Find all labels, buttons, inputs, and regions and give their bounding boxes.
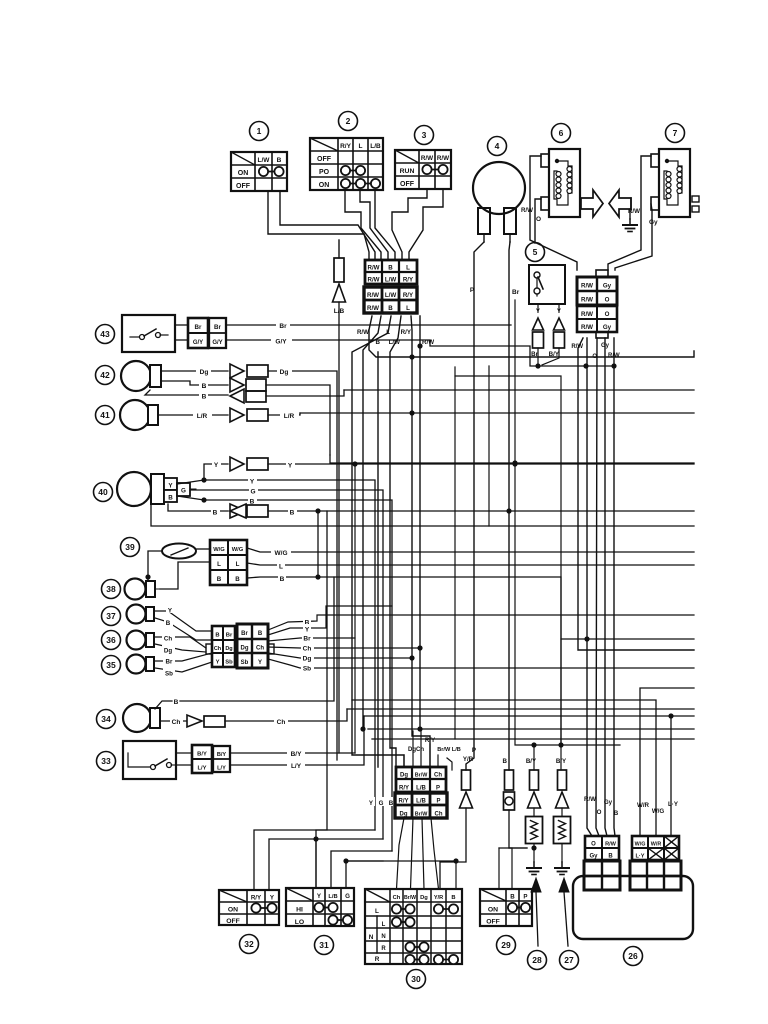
- svg-text:Dg: Dg: [400, 773, 408, 779]
- svg-text:W/G: W/G: [275, 550, 288, 557]
- svg-text:B: B: [510, 894, 515, 901]
- svg-text:L: L: [279, 564, 283, 571]
- svg-text:B: B: [389, 800, 394, 807]
- svg-text:Br: Br: [279, 323, 287, 330]
- svg-text:B: B: [258, 631, 263, 637]
- svg-text:L: L: [217, 561, 221, 568]
- svg-text:37: 37: [106, 611, 116, 621]
- svg-text:P: P: [523, 894, 527, 901]
- svg-text:B: B: [166, 620, 171, 627]
- svg-text:B: B: [388, 305, 393, 312]
- svg-text:B: B: [202, 383, 207, 390]
- svg-text:L/R: L/R: [197, 413, 208, 420]
- svg-text:O: O: [605, 297, 610, 304]
- svg-text:R/Y: R/Y: [401, 329, 412, 336]
- svg-text:R/Y: R/Y: [399, 786, 409, 792]
- svg-text:W/G: W/G: [232, 547, 244, 553]
- svg-text:L/Y: L/Y: [217, 766, 226, 772]
- svg-text:Y/R: Y/R: [434, 895, 443, 901]
- svg-text:L·Y: L·Y: [635, 854, 644, 860]
- svg-text:OFF: OFF: [236, 183, 251, 190]
- svg-text:HI: HI: [296, 907, 303, 914]
- svg-text:7: 7: [673, 128, 678, 138]
- svg-text:L/B: L/B: [416, 799, 426, 805]
- svg-text:O: O: [597, 809, 602, 816]
- svg-text:G/Y: G/Y: [212, 340, 222, 346]
- svg-text:Y: Y: [214, 462, 219, 469]
- svg-text:R/Y: R/Y: [398, 799, 408, 805]
- svg-text:Ch: Ch: [393, 895, 401, 901]
- svg-text:36: 36: [106, 635, 116, 645]
- svg-text:L: L: [406, 305, 410, 312]
- svg-text:L/B: L/B: [370, 143, 381, 150]
- svg-text:Dg: Dg: [225, 646, 232, 652]
- svg-text:L: L: [406, 265, 410, 272]
- svg-text:B: B: [213, 510, 218, 517]
- svg-text:Gy: Gy: [604, 799, 613, 806]
- svg-text:L/B: L/B: [416, 786, 426, 792]
- svg-text:B: B: [202, 394, 207, 401]
- svg-text:R: R: [381, 946, 386, 952]
- svg-text:R/Y: R/Y: [425, 737, 436, 744]
- svg-text:L: L: [236, 561, 240, 568]
- svg-text:PO: PO: [319, 169, 330, 176]
- svg-text:B: B: [174, 699, 179, 706]
- svg-text:Br: Br: [531, 351, 538, 358]
- svg-text:OFF: OFF: [400, 181, 415, 188]
- svg-text:B: B: [614, 810, 619, 817]
- svg-text:R/Y: R/Y: [251, 895, 262, 902]
- svg-text:R/W: R/W: [367, 305, 379, 312]
- svg-text:27: 27: [564, 955, 574, 965]
- svg-text:R/W: R/W: [581, 324, 593, 331]
- svg-text:Ch: Ch: [256, 646, 264, 652]
- svg-text:B: B: [215, 633, 219, 639]
- svg-text:39: 39: [125, 542, 135, 552]
- svg-text:43: 43: [100, 329, 110, 339]
- svg-text:R/W: R/W: [367, 265, 379, 272]
- svg-text:Sb: Sb: [241, 660, 249, 666]
- svg-text:2: 2: [346, 116, 351, 126]
- svg-text:Dg: Dg: [280, 369, 289, 376]
- svg-text:G/Y: G/Y: [193, 340, 203, 346]
- svg-text:L/W: L/W: [258, 157, 271, 164]
- svg-text:Ch: Ch: [214, 646, 222, 652]
- svg-text:Ch: Ch: [303, 646, 312, 653]
- svg-text:Y: Y: [258, 660, 262, 666]
- svg-text:Br: Br: [303, 636, 311, 643]
- svg-text:B: B: [608, 854, 613, 860]
- svg-text:B: B: [388, 265, 393, 272]
- svg-text:L/R: L/R: [284, 413, 295, 420]
- svg-text:Gy: Gy: [589, 854, 598, 860]
- svg-text:Ch: Ch: [172, 719, 181, 726]
- svg-text:B: B: [451, 895, 455, 901]
- svg-text:Ch: Ch: [164, 636, 172, 643]
- svg-text:L: L: [375, 908, 379, 915]
- svg-text:R/Y: R/Y: [403, 292, 414, 299]
- svg-text:Dg: Dg: [241, 646, 249, 652]
- svg-text:O: O: [591, 842, 596, 848]
- svg-text:P: P: [472, 747, 476, 754]
- svg-text:OFF: OFF: [317, 156, 332, 163]
- svg-text:R/W: R/W: [367, 292, 379, 299]
- svg-text:B: B: [503, 758, 508, 765]
- svg-text:W/G: W/G: [652, 808, 665, 815]
- svg-text:G: G: [250, 489, 255, 496]
- svg-text:O: O: [592, 354, 597, 360]
- svg-text:ON: ON: [488, 907, 498, 914]
- svg-text:Br: Br: [195, 324, 202, 331]
- svg-text:R/W: R/W: [521, 207, 533, 214]
- svg-text:29: 29: [501, 940, 511, 950]
- svg-text:4: 4: [495, 141, 500, 151]
- svg-text:W/R: W/R: [637, 802, 650, 809]
- svg-text:G: G: [181, 488, 186, 495]
- svg-text:L: L: [359, 143, 363, 150]
- svg-text:Gy: Gy: [603, 283, 612, 290]
- svg-text:LO: LO: [295, 919, 304, 926]
- svg-text:L/Y: L/Y: [197, 766, 206, 772]
- svg-text:W/G: W/G: [213, 547, 225, 553]
- svg-text:R/W: R/W: [584, 796, 596, 803]
- svg-text:Dg: Dg: [164, 648, 172, 655]
- svg-text:Dg: Dg: [303, 656, 312, 663]
- svg-text:G: G: [379, 800, 384, 807]
- svg-text:R/W: R/W: [608, 353, 620, 359]
- svg-text:34: 34: [101, 714, 111, 724]
- svg-text:R/W: R/W: [605, 842, 617, 848]
- svg-text:N: N: [381, 934, 385, 940]
- svg-text:R/W: R/W: [581, 311, 593, 318]
- svg-text:W/R: W/R: [651, 842, 662, 848]
- svg-text:B: B: [168, 495, 173, 502]
- svg-text:N: N: [369, 934, 374, 941]
- svg-text:B: B: [217, 576, 222, 583]
- svg-text:B/Y: B/Y: [291, 751, 303, 758]
- svg-text:Y/R: Y/R: [463, 756, 474, 763]
- svg-text:33: 33: [101, 756, 111, 766]
- svg-text:L: L: [386, 329, 390, 336]
- svg-text:B/Y: B/Y: [197, 752, 207, 758]
- svg-text:L/W: L/W: [385, 292, 396, 299]
- svg-text:3: 3: [422, 130, 427, 140]
- svg-text:35: 35: [106, 660, 116, 670]
- svg-text:Br/W: Br/W: [404, 895, 416, 901]
- svg-text:L/Y: L/Y: [291, 763, 302, 770]
- svg-text:31: 31: [319, 940, 329, 950]
- svg-text:5: 5: [533, 247, 538, 257]
- svg-text:W/G: W/G: [635, 842, 646, 848]
- svg-text:G: G: [345, 893, 350, 900]
- svg-text:G/Y: G/Y: [275, 339, 287, 346]
- svg-text:R/W: R/W: [581, 297, 593, 304]
- svg-text:40: 40: [98, 487, 108, 497]
- svg-text:P: P: [470, 287, 475, 294]
- svg-text:R: R: [375, 956, 380, 963]
- svg-text:ON: ON: [238, 170, 249, 177]
- svg-text:Dg: Dg: [420, 895, 428, 901]
- svg-text:DgCh: DgCh: [408, 747, 424, 753]
- svg-text:P: P: [436, 786, 440, 792]
- svg-text:Sb: Sb: [225, 660, 233, 666]
- svg-text:R/W: R/W: [581, 283, 593, 290]
- svg-text:R/W: R/W: [437, 155, 449, 162]
- svg-text:30: 30: [411, 974, 421, 984]
- svg-text:ON: ON: [228, 907, 238, 914]
- svg-text:B: B: [235, 576, 240, 583]
- svg-text:OFF: OFF: [486, 919, 500, 926]
- svg-text:Y: Y: [305, 627, 310, 634]
- svg-text:Gy: Gy: [649, 219, 658, 226]
- svg-text:L/B: L/B: [328, 894, 337, 900]
- svg-text:Ch: Ch: [277, 719, 286, 726]
- svg-text:R/W: R/W: [357, 329, 369, 336]
- svg-text:Br/W L/B: Br/W L/B: [437, 747, 461, 753]
- svg-text:Br: Br: [214, 324, 221, 331]
- svg-text:32: 32: [244, 939, 254, 949]
- svg-text:R/Y: R/Y: [340, 143, 352, 150]
- svg-text:L·Y: L·Y: [668, 801, 679, 808]
- svg-text:L/W: L/W: [385, 277, 396, 284]
- svg-text:R/W: R/W: [421, 155, 433, 162]
- svg-text:Dg: Dg: [400, 812, 408, 818]
- svg-text:P: P: [436, 799, 440, 805]
- svg-text:28: 28: [532, 955, 542, 965]
- svg-text:41: 41: [100, 410, 110, 420]
- svg-text:Br: Br: [241, 631, 248, 637]
- svg-text:42: 42: [100, 370, 110, 380]
- svg-text:Dg: Dg: [200, 369, 209, 376]
- svg-text:ON: ON: [319, 182, 330, 189]
- svg-text:B: B: [280, 576, 285, 583]
- svg-text:L: L: [382, 922, 386, 928]
- svg-text:B/Y: B/Y: [526, 758, 537, 765]
- svg-text:6: 6: [559, 128, 564, 138]
- svg-text:Y: Y: [216, 660, 220, 666]
- svg-text:Br/W: Br/W: [415, 812, 428, 818]
- svg-text:Br/W: Br/W: [415, 773, 428, 779]
- svg-text:O: O: [605, 311, 610, 318]
- svg-text:Gy: Gy: [601, 343, 610, 349]
- svg-text:Br: Br: [166, 659, 173, 666]
- svg-text:Ch: Ch: [434, 773, 442, 779]
- svg-text:Ch: Ch: [435, 812, 443, 818]
- svg-text:B: B: [277, 157, 282, 164]
- svg-text:B: B: [290, 510, 295, 517]
- svg-text:B/Y: B/Y: [217, 752, 227, 758]
- svg-text:R/W: R/W: [367, 277, 379, 284]
- svg-text:Br: Br: [512, 289, 520, 296]
- svg-text:B/Y: B/Y: [549, 351, 560, 358]
- svg-text:Gy: Gy: [603, 324, 612, 331]
- svg-text:Sb: Sb: [165, 671, 173, 678]
- svg-text:38: 38: [106, 584, 116, 594]
- svg-text:Br: Br: [226, 633, 233, 639]
- svg-text:R/W: R/W: [628, 208, 640, 215]
- svg-text:Sb: Sb: [303, 666, 311, 673]
- svg-text:OFF: OFF: [226, 918, 240, 925]
- svg-text:Y: Y: [250, 479, 255, 486]
- svg-text:1: 1: [257, 126, 262, 136]
- svg-text:Y: Y: [288, 463, 293, 470]
- svg-text:26: 26: [628, 951, 638, 961]
- svg-text:O: O: [536, 216, 541, 223]
- svg-text:RUN: RUN: [400, 168, 415, 175]
- svg-text:R/W: R/W: [571, 344, 583, 350]
- svg-text:R/Y: R/Y: [403, 277, 414, 284]
